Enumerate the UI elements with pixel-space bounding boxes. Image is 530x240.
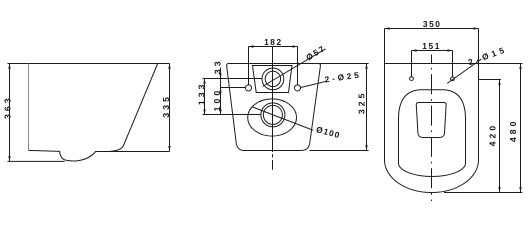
- svg-text:Ø100: Ø100: [315, 124, 341, 140]
- svg-text:325: 325: [357, 90, 367, 114]
- svg-text:335: 335: [161, 94, 171, 118]
- svg-text:350: 350: [423, 19, 442, 29]
- svg-text:420: 420: [487, 123, 497, 147]
- svg-text:151: 151: [422, 41, 441, 51]
- svg-text:363: 363: [2, 95, 12, 119]
- svg-text:33: 33: [213, 58, 223, 74]
- svg-text:133: 133: [196, 81, 206, 105]
- svg-text:182: 182: [264, 37, 283, 47]
- svg-text:480: 480: [508, 118, 518, 142]
- svg-text:2-Ø25: 2-Ø25: [324, 69, 362, 84]
- svg-text:100: 100: [212, 88, 222, 112]
- svg-text:Ø57: Ø57: [304, 43, 327, 63]
